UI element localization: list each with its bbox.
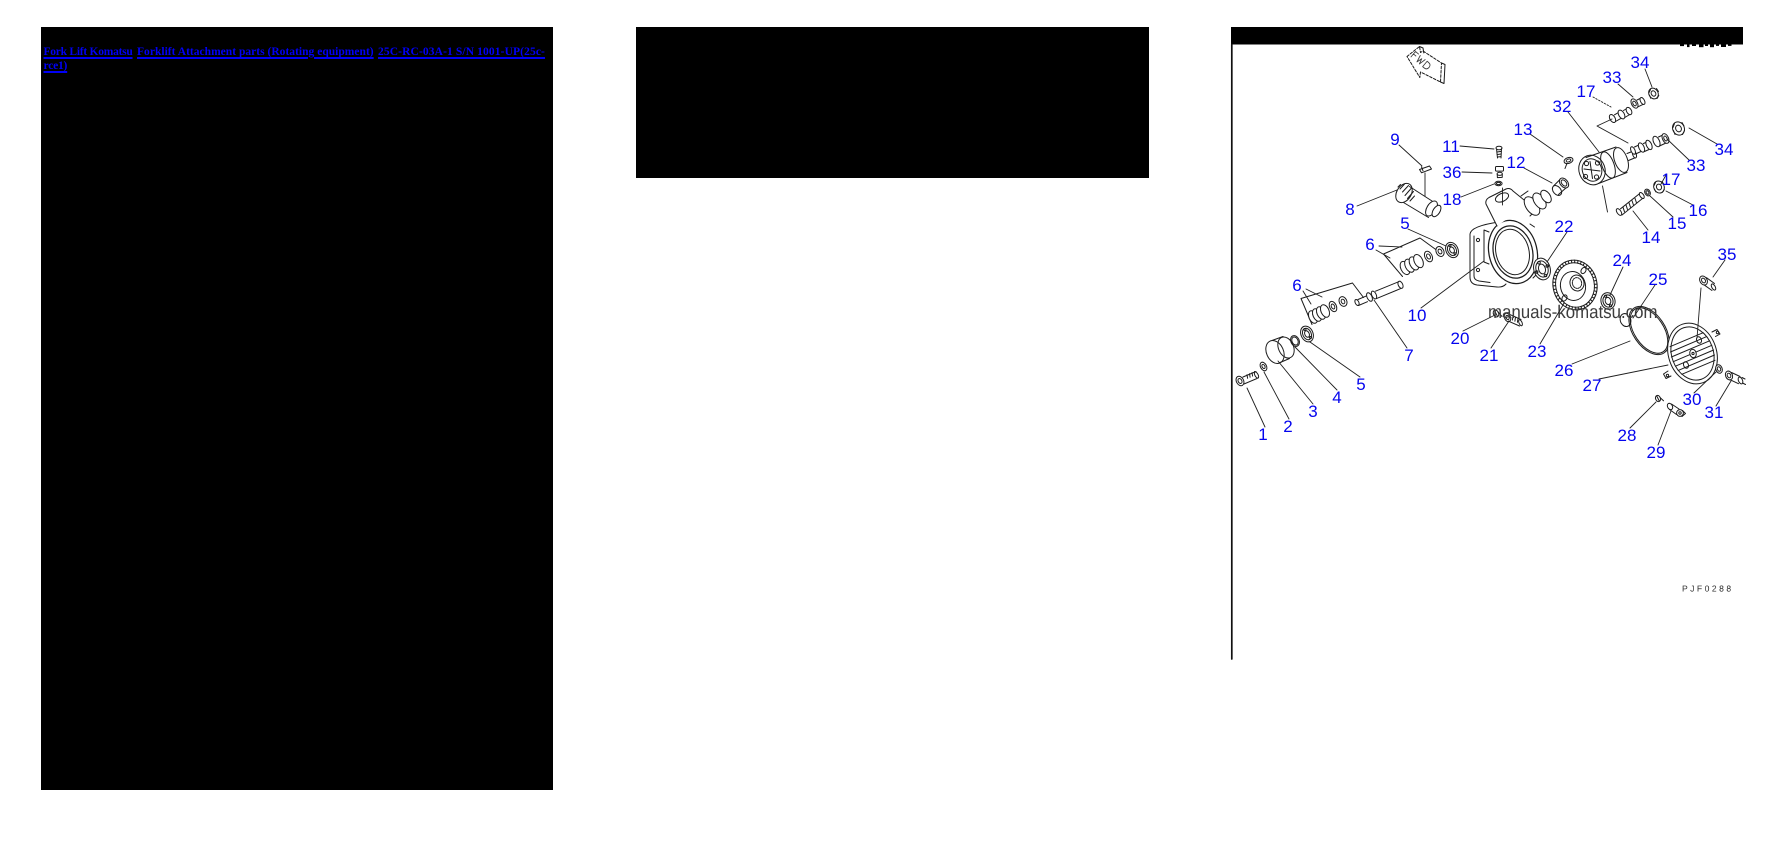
svg-text:15: 15 xyxy=(1668,214,1687,233)
leader 35 xyxy=(1713,260,1725,277)
shaft 7 xyxy=(1354,280,1404,306)
svg-text:21: 21 xyxy=(1480,346,1499,365)
nut 34b xyxy=(1670,120,1686,137)
o-ring 18 xyxy=(1495,181,1502,185)
stack drop line xyxy=(1502,188,1504,205)
svg-text:33: 33 xyxy=(1687,156,1706,175)
leader 20 xyxy=(1463,315,1495,331)
nut 16 17 xyxy=(1652,179,1667,195)
svg-text:25: 25 xyxy=(1649,270,1668,289)
leader 25 xyxy=(1633,285,1655,318)
port bolt on neck xyxy=(1498,208,1504,216)
leader 36 xyxy=(1462,172,1492,173)
washer 13 xyxy=(1563,156,1574,168)
fitting 33a xyxy=(1630,97,1647,110)
pin 9 xyxy=(1420,166,1432,173)
motor 32 drop line xyxy=(1603,186,1608,212)
leader 17a dotted xyxy=(1593,97,1611,107)
leader 5a xyxy=(1310,342,1360,377)
valve 33b xyxy=(1651,133,1670,148)
svg-text:2: 2 xyxy=(1283,417,1292,436)
leader 2 xyxy=(1264,372,1289,419)
leader 31 xyxy=(1716,381,1731,406)
svg-text:4: 4 xyxy=(1332,388,1341,407)
top black bar xyxy=(1231,27,1743,45)
clip 29 xyxy=(1666,402,1685,416)
bolt 35 xyxy=(1698,275,1717,291)
elbow 17a xyxy=(1608,106,1633,123)
svg-text:33: 33 xyxy=(1603,68,1622,87)
leader 6b xyxy=(1376,246,1402,258)
bolt 31 xyxy=(1724,370,1745,385)
svg-text:32: 32 xyxy=(1553,97,1572,116)
link text segment 2 xyxy=(137,46,374,58)
link text line 2 xyxy=(44,60,68,72)
svg-text:12: 12 xyxy=(1507,153,1526,172)
svg-text:28: 28 xyxy=(1618,426,1637,445)
watermark manuals-komatsu.com xyxy=(1489,305,1656,319)
svg-text:30: 30 xyxy=(1683,390,1702,409)
bearing 22 xyxy=(1531,256,1553,282)
leader 27 xyxy=(1599,365,1668,379)
leader 14 xyxy=(1633,211,1648,230)
svg-text:34: 34 xyxy=(1715,140,1734,159)
leader 29 xyxy=(1658,411,1671,445)
bushing 12 xyxy=(1550,176,1570,197)
svg-text:1: 1 xyxy=(1258,425,1267,444)
leader 17b xyxy=(1661,175,1666,184)
FWD direction arrow xyxy=(1407,47,1445,84)
svg-text:11: 11 xyxy=(1442,137,1460,156)
leader 33a xyxy=(1618,84,1633,97)
screw 28 xyxy=(1655,395,1664,403)
stud 14 xyxy=(1615,192,1645,217)
knob 8 xyxy=(1392,180,1442,218)
motor 32 xyxy=(1575,146,1638,189)
spring set 6a xyxy=(1301,283,1364,325)
screw 20 xyxy=(1492,309,1502,318)
leader 6a xyxy=(1303,289,1322,304)
bolt 21 xyxy=(1503,312,1523,326)
leader 5b xyxy=(1408,229,1446,246)
snap ring 25 xyxy=(1620,314,1631,327)
left black image box xyxy=(41,27,553,790)
svg-text:16: 16 xyxy=(1689,201,1708,220)
leader 12 xyxy=(1524,168,1552,183)
spring set 6b xyxy=(1384,238,1446,277)
pin 9 drop line xyxy=(1424,173,1426,196)
leader line 35 long xyxy=(1697,288,1701,338)
leader 22 xyxy=(1547,232,1567,262)
leader 16 xyxy=(1666,191,1693,205)
o-ring 4 xyxy=(1289,334,1301,348)
gear 23 xyxy=(1548,256,1601,314)
svg-text:7: 7 xyxy=(1404,346,1413,365)
svg-text:9: 9 xyxy=(1390,130,1399,149)
svg-text:6: 6 xyxy=(1292,276,1301,295)
FWD text xyxy=(1411,52,1431,71)
clipped text remnants under bar xyxy=(1680,45,1732,48)
svg-text:31: 31 xyxy=(1705,403,1724,422)
washer 2 xyxy=(1259,361,1269,372)
svg-text:27: 27 xyxy=(1583,376,1602,395)
leader 9 xyxy=(1399,145,1422,166)
right diagram panel xyxy=(1228,26,1785,666)
link text segment 3 xyxy=(378,46,545,58)
cup 3 xyxy=(1262,334,1297,366)
bolt 1 xyxy=(1234,371,1259,387)
svg-text:10: 10 xyxy=(1408,306,1427,325)
leader 15 xyxy=(1650,196,1673,217)
valve spool 33 stack middle xyxy=(1629,139,1653,155)
svg-text:20: 20 xyxy=(1451,329,1470,348)
link text over left box : segment 1 xyxy=(44,46,133,58)
fitting 36 xyxy=(1496,167,1504,178)
leader 33b xyxy=(1667,139,1689,160)
nut 34a xyxy=(1647,86,1660,100)
leader 17a elbow to motor xyxy=(1597,119,1628,143)
svg-text:29: 29 xyxy=(1647,443,1666,462)
svg-text:6: 6 xyxy=(1365,235,1374,254)
washer 30 xyxy=(1714,364,1723,374)
svg-text:5: 5 xyxy=(1356,375,1365,394)
svg-text:13: 13 xyxy=(1514,120,1533,139)
bearing 24 xyxy=(1599,291,1617,311)
svg-text:24: 24 xyxy=(1613,251,1632,270)
leader 1 xyxy=(1247,388,1265,427)
leader 26 xyxy=(1572,341,1630,364)
leader 4 xyxy=(1295,347,1337,390)
leader 10 xyxy=(1421,261,1484,308)
leader 34a xyxy=(1645,69,1652,87)
leader 28 xyxy=(1630,402,1656,428)
screw 11 xyxy=(1496,146,1502,158)
page left border xyxy=(1231,45,1233,660)
leader 3 xyxy=(1278,361,1313,404)
middle black image box xyxy=(636,27,1149,178)
svg-text:5: 5 xyxy=(1400,214,1409,233)
leader 32 xyxy=(1568,112,1599,152)
o-ring 26 xyxy=(1621,299,1678,362)
leader 18 xyxy=(1461,184,1494,197)
leader 30 xyxy=(1694,372,1716,393)
leader 34b xyxy=(1689,128,1717,144)
bearing 5b xyxy=(1443,240,1461,260)
svg-text:22: 22 xyxy=(1555,217,1574,236)
leader 8 xyxy=(1357,190,1397,206)
svg-text:26: 26 xyxy=(1555,361,1574,380)
leader 21 xyxy=(1491,321,1509,348)
svg-text:23: 23 xyxy=(1528,342,1547,361)
svg-text:18: 18 xyxy=(1443,190,1462,209)
leader 7 xyxy=(1374,300,1407,348)
housing 10 body xyxy=(1470,215,1544,289)
leader 11 xyxy=(1460,146,1494,149)
svg-text:36: 36 xyxy=(1443,163,1462,182)
leader 24 xyxy=(1610,267,1623,295)
bearing 5a xyxy=(1298,324,1316,344)
svg-text:14: 14 xyxy=(1642,228,1661,247)
housing 10 neck xyxy=(1486,188,1554,226)
cover 27 xyxy=(1660,316,1726,390)
svg-text:8: 8 xyxy=(1345,200,1354,219)
washer 15 xyxy=(1643,188,1651,197)
leader 23 xyxy=(1540,305,1563,344)
svg-text:34: 34 xyxy=(1631,53,1650,72)
plate number PJF0288 xyxy=(1683,586,1731,592)
svg-text:35: 35 xyxy=(1718,245,1737,264)
svg-text:17: 17 xyxy=(1577,82,1596,101)
leader 13 xyxy=(1530,134,1563,157)
svg-text:17: 17 xyxy=(1662,170,1681,189)
svg-text:3: 3 xyxy=(1308,402,1317,421)
